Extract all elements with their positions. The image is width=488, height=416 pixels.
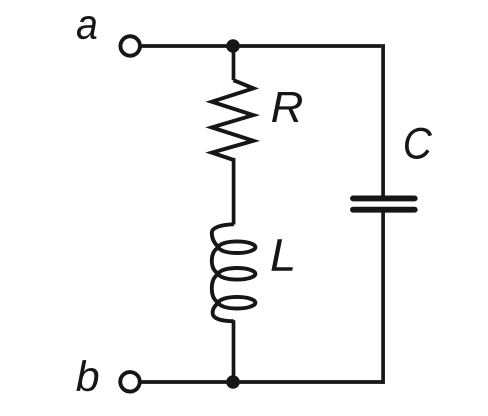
wire right branch upper (corner down to capacitor top plate) bbox=[381, 44, 385, 196]
label R bbox=[272, 92, 302, 122]
wire top rail from terminal a to top-right corner bbox=[142, 44, 382, 48]
junction node at bottom (b rail / RL branch / C branch) bbox=[226, 375, 240, 389]
capacitor C bottom plate bbox=[353, 207, 415, 213]
junction node at top (a rail / RL branch / C branch) bbox=[226, 39, 240, 53]
label terminal a bbox=[77, 16, 97, 39]
wire inductor bottom to node b junction bbox=[232, 320, 236, 382]
wire resistor bottom to inductor top bbox=[232, 158, 236, 225]
label C bbox=[405, 128, 432, 159]
terminal b open circle bbox=[120, 372, 140, 392]
terminal a open circle bbox=[120, 36, 140, 56]
label L bbox=[271, 239, 293, 270]
inductor L coil bbox=[212, 224, 256, 321]
wire from node a junction down to resistor top bbox=[232, 46, 236, 80]
wire bottom rail from terminal b to bottom-right corner bbox=[142, 380, 384, 384]
label terminal b bbox=[76, 360, 98, 391]
capacitor C top plate bbox=[353, 195, 415, 201]
wire right branch lower (capacitor bottom plate down to corner) bbox=[381, 212, 385, 384]
resistor R zigzag bbox=[212, 80, 254, 160]
